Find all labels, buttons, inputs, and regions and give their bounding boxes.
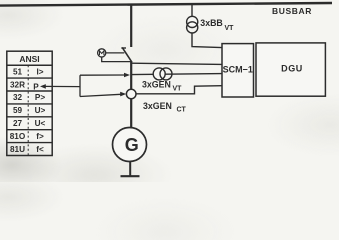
wire: top branch to feeder node [80,74,125,76]
svg-text:VT: VT [173,86,183,93]
motor operator M circle [98,49,106,57]
svg-text:51: 51 [13,67,23,76]
svg-text:BUSBAR: BUSBAR [272,6,312,16]
svg-text:32: 32 [13,93,23,102]
ANSI table texts [10,54,46,154]
voltage transformer 3xBB VT (two stacked circles) [187,16,198,33]
wire: feeder drop from busbar to breaker [130,4,132,47]
wire: BB VT to SCM-1 [192,33,222,48]
busbar [0,3,332,6]
arrowhead pointing left into table (P direction) [40,84,46,89]
wire: breaker node to SCM-1 [131,63,222,64]
svg-text:81O: 81O [10,132,26,141]
svg-text:59: 59 [13,106,23,115]
wire: feeder from breaker down to generator [130,62,132,128]
svg-text:I>: I> [36,67,43,76]
wire: bottom branch to CT [80,94,121,96]
generator G circle [113,128,147,162]
label 3xGEN VT [142,79,182,92]
svg-text:3xGEN: 3xGEN [142,79,171,89]
svg-text:32R: 32R [10,80,25,89]
breaker fixed-contact tick [121,47,126,49]
svg-text:SCM−1: SCM−1 [223,64,253,74]
svg-text:ANSI: ANSI [19,54,39,64]
svg-text:f<: f< [36,145,44,154]
wire: M linkage to blade [106,52,125,54]
wire: generator neutral down [129,161,131,176]
wire: from ANSI table 32R row rightwards [44,85,80,87]
wire: GEN CT to SCM-1 with jog [136,86,222,94]
generator neutral terminal tick [121,175,140,177]
svg-text:P: P [33,82,39,91]
label 3xGEN CT [143,101,187,114]
svg-text:3xGEN: 3xGEN [143,101,172,111]
svg-text:f>: f> [36,132,44,141]
control unit box DGU [256,43,325,96]
svg-text:G: G [125,135,139,155]
wire: M stem down [102,57,132,62]
relay box SCM-1 [222,44,254,97]
ANSI table outer frame [7,51,52,155]
current transformer 3xGEN CT circle [126,89,136,99]
svg-text:P>: P> [35,93,45,102]
ANSI table row separators [7,78,52,143]
svg-text:U>: U> [35,106,46,115]
arrowhead pointing right at CT [120,92,126,97]
label 3xBB VT [200,18,234,32]
svg-text:DGU: DGU [281,64,303,74]
svg-text:CT: CT [177,107,187,114]
svg-text:3xBB: 3xBB [200,18,223,28]
motor operator letter M [100,51,104,55]
arrowhead pointing right at feeder node [124,73,130,78]
voltage transformer 3xGEN VT (two overlapping circles) [153,68,172,80]
ANSI table header separator [7,64,52,66]
svg-text:27: 27 [13,119,23,128]
breaker blade (open switch) [122,47,132,62]
wire: branch vertical [79,75,81,96]
svg-text:81U: 81U [10,145,25,154]
svg-text:VT: VT [225,25,235,32]
ANSI table column divider (dashed) [27,65,29,155]
svg-text:U<: U< [35,119,46,128]
wire: busbar VT drop [191,4,193,17]
wire: generator VT tap to SCM-1 [131,74,222,75]
